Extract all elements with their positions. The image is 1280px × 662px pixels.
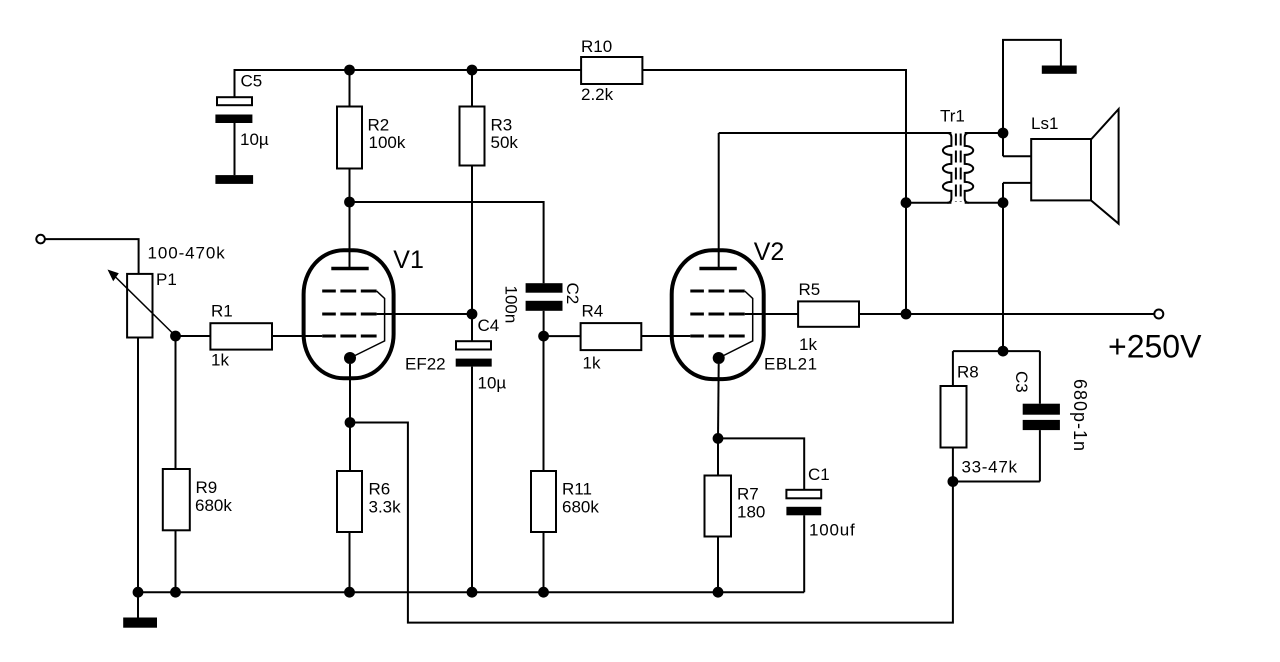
terminal +250V bbox=[1154, 310, 1163, 319]
wire C2 to R4 bbox=[544, 335, 581, 337]
svg-text:1k: 1k bbox=[211, 351, 229, 370]
svg-text:1k: 1k bbox=[799, 335, 817, 354]
wire R7 node to C1 bbox=[718, 438, 804, 489]
svg-text:R2: R2 bbox=[368, 116, 390, 135]
input terminal bbox=[36, 235, 45, 244]
resistor R3 bbox=[460, 70, 485, 314]
wire primary bottom to B+ bbox=[906, 202, 951, 204]
wire V2 cathode to R7 node bbox=[717, 364, 720, 438]
tube V2 grid g2 bbox=[690, 313, 744, 316]
capacitor C1 bbox=[786, 490, 821, 592]
node bus R11 bbox=[538, 587, 549, 598]
wire V1 cathode to R6 bbox=[349, 364, 351, 471]
node V1 screen bbox=[467, 309, 478, 320]
svg-text:100-470k: 100-470k bbox=[148, 243, 226, 262]
svg-text:680p-1n: 680p-1n bbox=[1070, 379, 1090, 452]
wire P1 bottom to ground bus bbox=[137, 338, 139, 593]
wire R8 C3 top node bbox=[953, 350, 1040, 352]
wire C3 bottom to R8 bottom bbox=[953, 481, 1040, 483]
ground main bbox=[123, 618, 157, 628]
svg-text:3.3k: 3.3k bbox=[369, 498, 402, 517]
svg-text:R5: R5 bbox=[799, 280, 821, 299]
node V2 cathode R7 bbox=[713, 433, 724, 444]
svg-text:V1: V1 bbox=[393, 246, 424, 274]
node R2 top bbox=[344, 65, 355, 76]
node V2 grid bbox=[538, 331, 549, 342]
node bus R7 bbox=[713, 587, 724, 598]
ground C5 bbox=[215, 175, 253, 184]
speaker Ls1 bbox=[1031, 109, 1118, 224]
svg-text:Ls1: Ls1 bbox=[1031, 114, 1058, 133]
transformer Tr1 secondary bbox=[965, 133, 974, 203]
node primary bottom bbox=[901, 197, 912, 208]
wire V1 anode to C2 bbox=[350, 202, 544, 283]
tube V2 envelope bbox=[672, 250, 764, 379]
node bus P1 bbox=[133, 587, 144, 598]
wire R4 to V2 grid bbox=[641, 335, 690, 337]
svg-text:V2: V2 bbox=[754, 238, 785, 266]
svg-text:Tr1: Tr1 bbox=[940, 107, 965, 126]
wire B+ node to +250V terminal bbox=[906, 313, 1154, 315]
svg-text:C4: C4 bbox=[478, 316, 500, 335]
svg-text:R10: R10 bbox=[581, 37, 612, 56]
svg-text:R4: R4 bbox=[582, 302, 604, 321]
ground bus bbox=[138, 591, 804, 593]
tube V1 anode bbox=[331, 202, 368, 269]
node bus C4 bbox=[467, 587, 478, 598]
tube V2 grid g1 bbox=[690, 335, 744, 338]
svg-text:R11: R11 bbox=[562, 480, 592, 499]
node secondary bottom bbox=[998, 197, 1009, 208]
resistor R1 bbox=[210, 323, 272, 349]
svg-text:R6: R6 bbox=[369, 480, 391, 499]
wire speaker bottom stub bbox=[1003, 182, 1031, 184]
node bus R6 bbox=[344, 587, 355, 598]
svg-text:P1: P1 bbox=[156, 270, 177, 289]
transformer Tr1 core bbox=[956, 134, 961, 203]
resistor R2 bbox=[337, 70, 362, 202]
node bus R9 bbox=[170, 587, 181, 598]
resistor R8 bbox=[941, 351, 967, 481]
svg-text:C5: C5 bbox=[241, 72, 263, 91]
resistor R4 bbox=[581, 323, 642, 350]
wire top rail from C5 to R10 bbox=[235, 70, 582, 97]
tube V2 cathode bbox=[713, 352, 725, 364]
svg-text:R1: R1 bbox=[211, 301, 233, 320]
wire secondary bottom bbox=[965, 202, 1003, 204]
svg-text:R8: R8 bbox=[957, 363, 979, 382]
wire input to P1 bbox=[45, 239, 139, 274]
wire V2 screen to R5 bbox=[745, 313, 798, 315]
wire R1 to V1 grid bbox=[272, 335, 322, 337]
svg-text:10µ: 10µ bbox=[478, 374, 507, 393]
svg-text:EF22: EF22 bbox=[405, 354, 446, 373]
svg-text:180: 180 bbox=[737, 503, 765, 522]
svg-text:R9: R9 bbox=[196, 478, 218, 497]
node R8 bottom bbox=[948, 476, 959, 487]
resistor R6 bbox=[337, 471, 362, 592]
wire speaker top stub bbox=[1003, 155, 1031, 157]
ground chassis top right bbox=[1042, 66, 1077, 74]
node V1 anode bbox=[344, 197, 355, 208]
wire secondary top to chassis ground bbox=[1003, 40, 1061, 156]
resistor R11 bbox=[531, 336, 556, 592]
wire R5 to B+ node bbox=[859, 313, 906, 315]
tube V1 grid g3 bbox=[322, 290, 376, 293]
wire ground stub bottom left bbox=[137, 592, 139, 617]
svg-text:33-47k: 33-47k bbox=[962, 458, 1018, 477]
wire wiper to R1 bbox=[176, 335, 211, 337]
transformer Tr1 primary bbox=[943, 133, 952, 203]
svg-text:680k: 680k bbox=[195, 496, 232, 515]
capacitor C3 bbox=[1023, 351, 1060, 481]
node R3 top bbox=[467, 65, 478, 76]
tube V1 envelope bbox=[304, 250, 394, 378]
svg-text:1k: 1k bbox=[583, 353, 601, 372]
tube V1 grid g2 bbox=[322, 313, 376, 316]
svg-text:R7: R7 bbox=[737, 485, 759, 504]
resistor R9 bbox=[163, 336, 190, 592]
tube V2 grid g3 bbox=[690, 290, 744, 293]
node B+ R5 bbox=[901, 309, 912, 320]
svg-text:C3: C3 bbox=[1012, 371, 1031, 393]
node R8 top bbox=[998, 346, 1009, 357]
tube V1 grid g1 bbox=[322, 335, 376, 338]
tube V2 suppressor link bbox=[719, 291, 753, 358]
tube V2 anode bbox=[699, 133, 736, 269]
potentiometer P1 bbox=[108, 270, 176, 338]
wire secondary top bbox=[965, 132, 1003, 134]
resistor R7 bbox=[705, 438, 732, 592]
svg-text:+250V: +250V bbox=[1108, 329, 1202, 365]
svg-text:100k: 100k bbox=[369, 133, 406, 152]
svg-text:680k: 680k bbox=[562, 498, 599, 517]
tube V1 suppressor link bbox=[350, 291, 385, 358]
resistor R5 bbox=[798, 301, 859, 326]
wire V2 anode to transformer primary bbox=[719, 132, 952, 134]
capacitor C5 bbox=[215, 97, 252, 175]
node P1 wiper bbox=[170, 331, 181, 342]
capacitor C4 bbox=[456, 314, 492, 592]
svg-text:50k: 50k bbox=[491, 133, 519, 152]
svg-text:10µ: 10µ bbox=[240, 130, 269, 149]
wire R10 right to B+ corner down to R5 junction bbox=[642, 70, 906, 314]
wire V1 screen to C4 node bbox=[377, 313, 472, 315]
tube V1 cathode bbox=[344, 352, 356, 364]
wire feedback from V1 cathode to R8 bottom bbox=[350, 423, 953, 623]
resistor R10 bbox=[581, 57, 642, 84]
wire secondary bottom down to R8 C3 node bbox=[1002, 183, 1004, 351]
node V1 cathode bbox=[345, 417, 356, 428]
svg-text:C1: C1 bbox=[808, 465, 830, 484]
svg-text:R3: R3 bbox=[491, 116, 513, 135]
svg-text:EBL21: EBL21 bbox=[764, 354, 818, 373]
node secondary top bbox=[998, 128, 1009, 139]
svg-text:C2: C2 bbox=[563, 283, 582, 305]
capacitor C2 bbox=[526, 283, 563, 336]
svg-text:100n: 100n bbox=[502, 286, 521, 324]
svg-text:100uf: 100uf bbox=[809, 521, 856, 540]
svg-text:2.2k: 2.2k bbox=[581, 85, 614, 104]
